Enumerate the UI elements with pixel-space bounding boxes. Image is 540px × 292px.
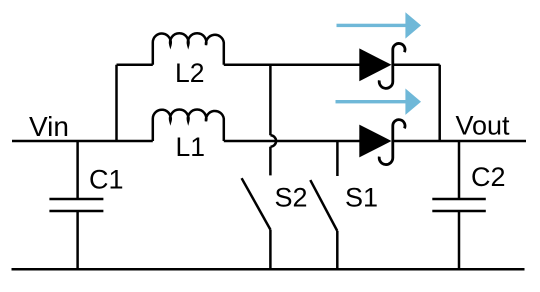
wire C2 lower vertical	[458, 211, 461, 269]
svg-text:L2: L2	[175, 58, 204, 88]
wire C1 upper vertical	[76, 141, 79, 199]
svg-text:Vout: Vout	[456, 111, 511, 141]
inductor L2	[153, 33, 224, 65]
wire bottom rail	[12, 268, 525, 271]
wire S2 stub below hop	[269, 147, 272, 176]
capacitor C1 plates	[49, 198, 103, 201]
wire right vertical (upper branch down to output node)	[438, 65, 441, 141]
current arrow top	[337, 12, 422, 38]
switch S2 blade	[242, 178, 271, 229]
svg-text:S1: S1	[345, 182, 378, 212]
diode D1 triangle (lower)	[359, 125, 391, 158]
svg-text:C2: C2	[471, 162, 506, 192]
diode D1 schottky cathode	[379, 120, 405, 165]
current arrow bottom	[336, 89, 422, 115]
wire main rail mid (L1 to diode D1 anode)	[224, 140, 360, 143]
svg-text:C1: C1	[89, 165, 124, 195]
svg-text:S2: S2	[275, 182, 308, 212]
diode D2 schottky cathode	[379, 43, 405, 88]
wire main rail output (D1 cathode to right end)	[393, 140, 526, 143]
wire hop over main rail	[270, 135, 276, 146]
wire main rail left (Vin to L1)	[12, 140, 153, 143]
capacitor C2 plates	[432, 198, 486, 201]
wire S2 upper vertical from L2 branch	[269, 65, 272, 136]
svg-text:Vin: Vin	[29, 111, 69, 142]
wire C1 lower vertical	[76, 211, 79, 269]
diode D2 triangle (upper)	[359, 48, 391, 81]
wire C2 upper vertical	[458, 141, 461, 199]
wire S1 stub from main rail	[336, 141, 339, 176]
wire L2 branch horizontal left	[117, 64, 153, 67]
wire D2 cathode to right corner	[393, 64, 440, 67]
switch S1 blade	[310, 180, 337, 231]
wire S1 lower vertical	[336, 231, 339, 269]
inductor L1	[153, 109, 224, 141]
wire S2 lower vertical	[269, 230, 272, 270]
svg-text:L1: L1	[176, 132, 205, 162]
wire L2 branch vertical	[115, 65, 118, 141]
wire L2 branch horizontal right (L2 to diode D2 anode)	[224, 64, 360, 67]
